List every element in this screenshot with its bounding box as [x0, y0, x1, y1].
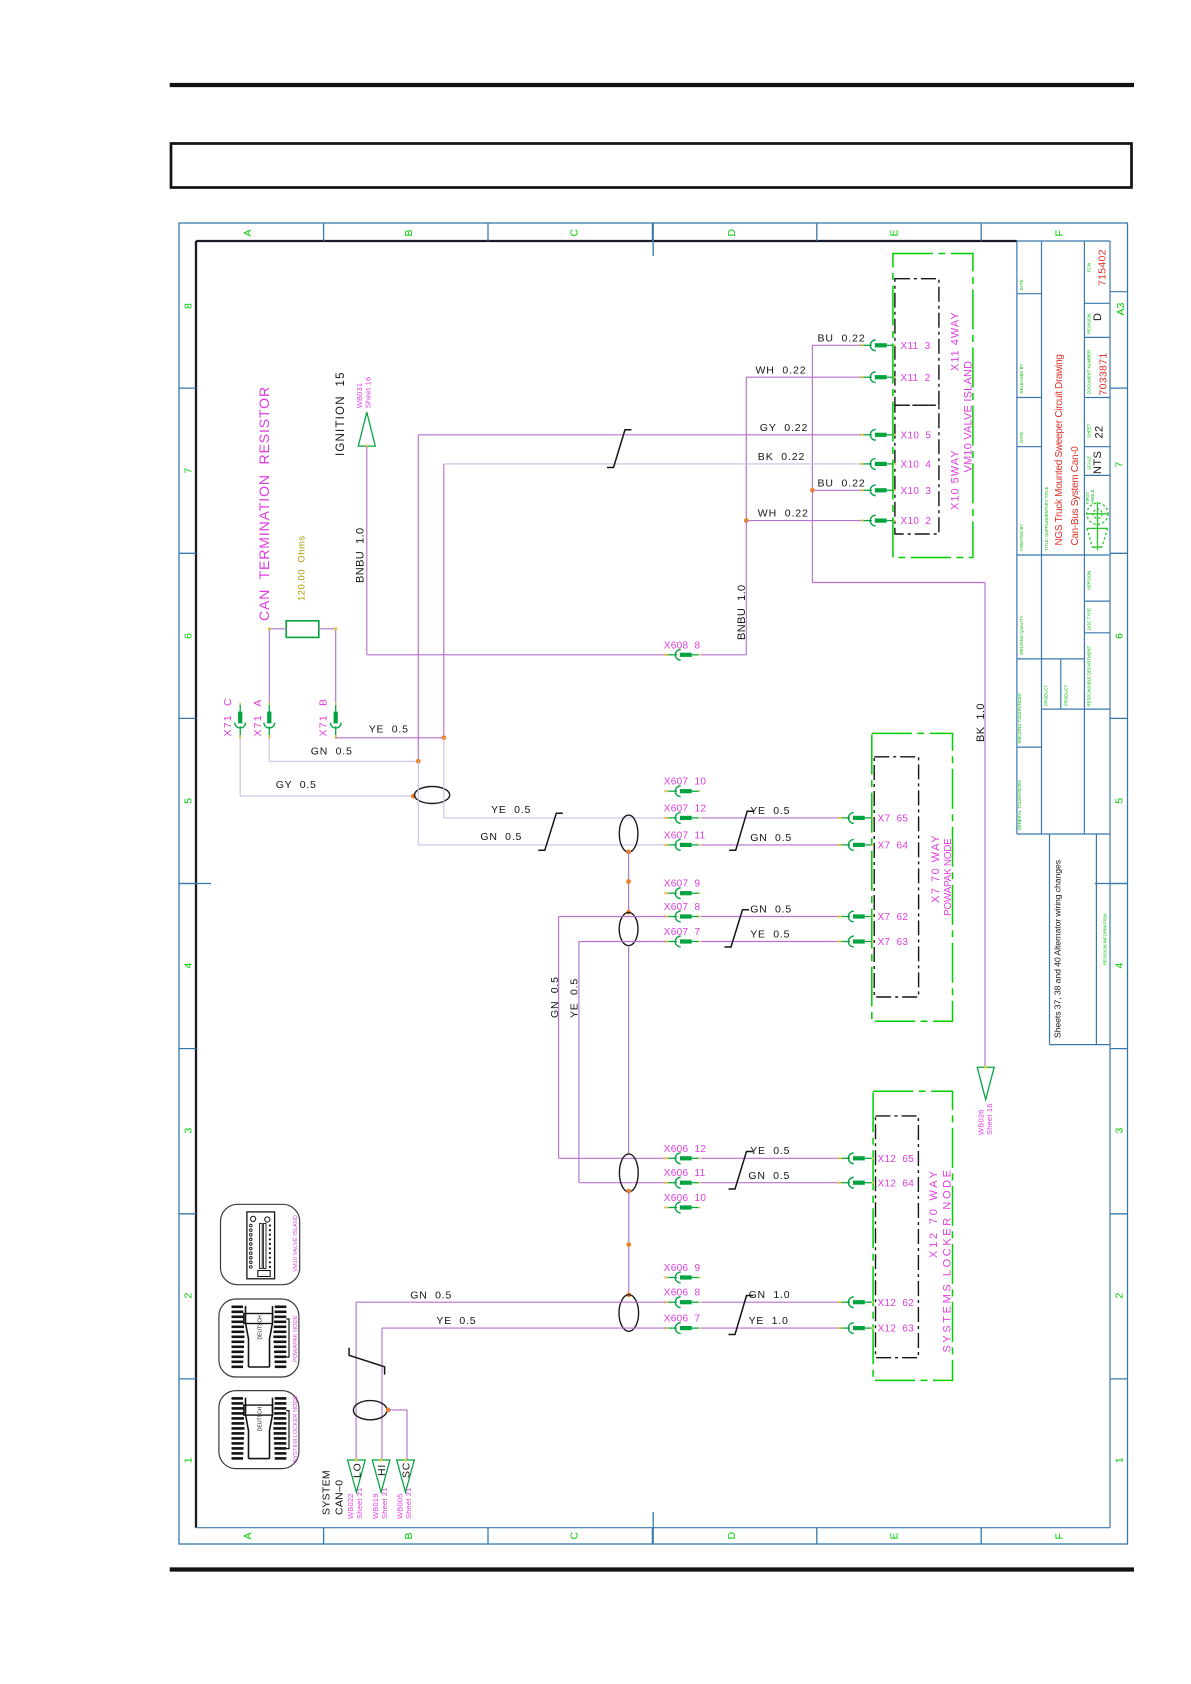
zone numbers right	[1114, 462, 1126, 1464]
svg-text:PRODUCT: PRODUCT	[1044, 684, 1049, 706]
svg-text:GN 0.5: GN 0.5	[311, 746, 353, 758]
cable slash X12 pair2	[729, 1296, 754, 1335]
pin X10 2	[859, 515, 895, 526]
paper size cell	[1110, 291, 1128, 293]
svg-text:X11 4WAY: X11 4WAY	[949, 311, 961, 371]
svg-text:2: 2	[183, 1293, 195, 1299]
svg-text:X12 62: X12 62	[878, 1298, 915, 1309]
svg-text:D: D	[726, 1532, 738, 1540]
splice X606 11	[664, 1177, 700, 1188]
svg-text:A: A	[242, 229, 254, 236]
svg-text:7: 7	[1114, 462, 1126, 468]
zone numbers left	[183, 303, 195, 1463]
svg-text:GN 0.5: GN 0.5	[750, 832, 792, 844]
svg-text:LO: LO	[351, 1462, 363, 1478]
wire GN 0.5 system	[356, 1302, 666, 1460]
svg-text:WH 0.22: WH 0.22	[756, 364, 807, 376]
wire WH 0.22 X11 2	[746, 377, 860, 520]
svg-text:A3: A3	[1115, 302, 1127, 315]
resistor R 120 ohm	[286, 621, 319, 638]
connector box X7 powapak node	[872, 733, 953, 1021]
zone ticks top	[324, 223, 982, 241]
cable slash GY/BK	[607, 430, 632, 468]
connector shell X11	[895, 279, 939, 406]
svg-text:X607 7: X607 7	[664, 927, 701, 938]
twisted pair ellipse E2	[619, 815, 638, 852]
pin X71 C	[235, 703, 246, 739]
pin X12 62	[837, 1297, 873, 1308]
sheet frame inner top	[196, 240, 1017, 242]
zone ticks bottom	[324, 1528, 982, 1544]
svg-text:SYSTEM: SYSTEM	[321, 1470, 333, 1515]
svg-text:X10 3: X10 3	[901, 486, 932, 497]
svg-text:X71 C: X71 C	[222, 697, 234, 736]
bottom rule	[170, 1567, 1134, 1571]
wire CAN drop GN	[417, 761, 419, 845]
junction E3 top	[626, 910, 631, 915]
junction GN	[416, 759, 421, 764]
svg-text:8: 8	[183, 303, 195, 309]
svg-text:WELDING QUALITY: WELDING QUALITY	[1019, 615, 1024, 655]
wire BK 0.22	[444, 464, 861, 737]
splice X606 9	[664, 1272, 700, 1283]
splice X606 12	[664, 1153, 700, 1164]
wire chain E2-E3	[628, 852, 630, 913]
svg-text:3: 3	[1114, 1128, 1126, 1134]
svg-text:GN 0.5: GN 0.5	[748, 1170, 790, 1182]
wire chain E3-E4	[628, 946, 630, 1155]
svg-text:X606 8: X606 8	[664, 1288, 701, 1299]
pin X7 63	[837, 936, 873, 947]
connector shell X10	[895, 405, 939, 534]
zone letters bottom	[242, 1532, 1066, 1540]
svg-text:D: D	[1092, 313, 1104, 321]
svg-text:YE 0.5: YE 0.5	[750, 1145, 790, 1157]
wire BU 0.22 X11 3	[812, 345, 860, 490]
splice X606 7	[664, 1323, 700, 1334]
off-sheet arrow WB031 ignition	[358, 412, 375, 448]
junction WH	[744, 518, 749, 523]
svg-text:X10 4: X10 4	[901, 460, 932, 471]
zone letters top	[242, 229, 1066, 237]
wire X606 7 to X12 63	[701, 1327, 839, 1329]
svg-text:1: 1	[183, 1457, 195, 1463]
svg-text:5: 5	[1114, 798, 1126, 804]
svg-text:YE 0.5: YE 0.5	[436, 1315, 476, 1327]
wire chain E4-E5	[628, 1191, 630, 1295]
svg-text:X71 B: X71 B	[318, 698, 330, 737]
svg-text:TITLE: SUPPLEMENTARY TITLE: TITLE: SUPPLEMENTARY TITLE	[1044, 486, 1049, 551]
cable slash X12 pair1	[729, 1152, 754, 1190]
pin X71 A	[264, 703, 275, 739]
zone ticks right	[1110, 388, 1128, 1379]
svg-text:X12 65: X12 65	[878, 1154, 915, 1165]
svg-text:WB019: WB019	[371, 1493, 380, 1519]
svg-text:POWAPAK NODE: POWAPAK NODE	[293, 1315, 299, 1362]
svg-text:Sheet 21: Sheet 21	[380, 1487, 389, 1519]
svg-text:X7 65: X7 65	[878, 814, 909, 825]
svg-text:WB005: WB005	[395, 1493, 404, 1519]
svg-text:GY 0.5: GY 0.5	[276, 779, 317, 791]
cable slash X7 pair2	[725, 910, 750, 947]
pictogram VM10 valve island	[221, 1204, 300, 1284]
svg-text:CAN TERMINATION RESISTOR: CAN TERMINATION RESISTOR	[256, 386, 272, 621]
wire X607 7 to X7 63	[701, 941, 839, 943]
svg-text:DATE: DATE	[1019, 432, 1024, 443]
label WB005 Sheet 21	[395, 1487, 413, 1519]
wire YE 0.5 X71B	[336, 737, 444, 739]
svg-text:C: C	[568, 1532, 580, 1540]
pin X11 3	[859, 340, 895, 351]
zone ticks left	[179, 388, 196, 1379]
svg-text:120.00 Ohms: 120.00 Ohms	[297, 535, 308, 601]
svg-text:E: E	[888, 229, 900, 236]
pin X12 63	[837, 1323, 873, 1334]
label WB022 Sheet 21	[346, 1487, 364, 1519]
wire YE 0.5 to X607 12	[444, 817, 666, 819]
sheet frame inner left	[195, 241, 197, 1528]
svg-text:X7 64: X7 64	[878, 841, 909, 852]
junction E6 right	[386, 1408, 391, 1413]
svg-text:BNBU 1.0: BNBU 1.0	[736, 584, 748, 640]
splice X608 8	[664, 649, 700, 660]
svg-text:22: 22	[1094, 425, 1106, 438]
svg-text:GN 0.5: GN 0.5	[480, 831, 522, 843]
title block values	[1052, 249, 1127, 1038]
header box (empty)	[171, 144, 1132, 188]
off-sheet arrow SC	[397, 1459, 415, 1493]
svg-text:X12 70 WAY: X12 70 WAY	[928, 1168, 940, 1258]
off-sheet arrow WB026	[977, 1066, 994, 1100]
svg-text:SHEET: SHEET	[1087, 423, 1092, 438]
svg-text:YE 0.5: YE 0.5	[750, 805, 790, 817]
svg-text:BNBU 1.0: BNBU 1.0	[354, 527, 366, 583]
svg-text:X606 10: X606 10	[664, 1193, 707, 1204]
svg-text:X12 64: X12 64	[878, 1178, 915, 1189]
svg-text:X7 70 WAY: X7 70 WAY	[930, 834, 942, 903]
pin X11 2	[859, 372, 895, 383]
cable slash YE/GN	[538, 813, 563, 850]
pin X12 64	[837, 1177, 873, 1188]
connector box X12 systems locker node	[873, 1091, 952, 1380]
svg-text:YE 1.0: YE 1.0	[749, 1315, 789, 1327]
svg-text:GN 0.5: GN 0.5	[410, 1290, 452, 1302]
svg-text:X607 8: X607 8	[664, 902, 701, 913]
svg-text:GN 1.0: GN 1.0	[749, 1289, 791, 1301]
pin X71 B	[330, 703, 341, 739]
svg-text:X606 12: X606 12	[664, 1144, 707, 1155]
svg-text:VM10 VALVE ISLAND: VM10 VALVE ISLAND	[962, 361, 974, 473]
junction E2 bottom	[626, 850, 631, 855]
svg-text:715402: 715402	[1096, 249, 1108, 286]
pin X7 65	[837, 813, 873, 824]
label WB019 Sheet 21	[371, 1487, 389, 1519]
wire X606 8 to X12 62	[701, 1301, 839, 1303]
cable slash X7 pair1	[729, 811, 754, 850]
wire SC drop	[388, 1410, 407, 1460]
svg-text:X10 5WAY: X10 5WAY	[949, 449, 961, 510]
splice X606 8	[664, 1297, 700, 1308]
svg-text:1: 1	[1114, 1457, 1126, 1463]
splice X606 10	[664, 1202, 700, 1213]
wire X606 11 to X12 64	[701, 1182, 839, 1184]
svg-text:BK 0.22: BK 0.22	[758, 451, 805, 463]
svg-text:BU 0.22: BU 0.22	[818, 333, 866, 345]
twisted pair ellipse E1	[415, 787, 450, 804]
connector shell X7	[874, 757, 918, 997]
svg-text:D: D	[726, 229, 738, 237]
svg-text:NTS: NTS	[1092, 451, 1104, 474]
sheet frame inner right	[1109, 241, 1111, 1528]
svg-text:X606 7: X606 7	[664, 1314, 701, 1325]
wire BU 0.22 X10 3	[812, 489, 860, 491]
title block micro labels	[1017, 263, 1107, 965]
wire BNBU 1.0 left	[367, 446, 666, 655]
svg-text:VERSION: VERSION	[1087, 571, 1092, 590]
svg-text:X607 12: X607 12	[664, 803, 707, 814]
resistor lead right	[319, 627, 337, 703]
svg-text:CREATED BY: CREATED BY	[1019, 524, 1024, 551]
svg-text:F: F	[1053, 230, 1065, 236]
svg-text:PRODUCT: PRODUCT	[1063, 684, 1068, 706]
label WB031 Sheet 16	[355, 377, 373, 409]
junction E4 bottom	[626, 1189, 631, 1194]
pictogram SYSTEM LOCKER NODE	[219, 1391, 299, 1469]
off-sheet arrow HI	[372, 1459, 390, 1493]
svg-text:X7 62: X7 62	[878, 912, 909, 923]
svg-text:REVISION: REVISION	[1087, 313, 1092, 334]
wire to X606 12	[559, 1157, 666, 1159]
splice X607 7	[664, 936, 700, 947]
svg-text:Sheets 37, 38 and 40 Alternato: Sheets 37, 38 and 40 Alternator wiring c…	[1052, 859, 1062, 1038]
svg-text:WELDING TOLERANCES: WELDING TOLERANCES	[1017, 693, 1022, 743]
svg-text:Sheet 21: Sheet 21	[404, 1487, 413, 1519]
svg-text:RESPONSIBLE DEPARTMENT: RESPONSIBLE DEPARTMENT	[1087, 645, 1092, 706]
svg-text:Can-Bus System Can-0: Can-Bus System Can-0	[1070, 446, 1081, 546]
svg-text:X11 3: X11 3	[901, 341, 931, 352]
top rule	[170, 83, 1134, 87]
svg-text:X11 2: X11 2	[901, 373, 931, 384]
svg-text:SC: SC	[401, 1462, 413, 1478]
pin X10 5	[859, 429, 895, 440]
svg-text:WB031: WB031	[355, 383, 364, 409]
svg-text:NGS Truck Mounted Sweeper Circ: NGS Truck Mounted Sweeper Circuit Drawin…	[1054, 354, 1065, 545]
svg-text:CAN–0: CAN–0	[334, 1480, 346, 1515]
pin X10 4	[859, 459, 895, 470]
svg-text:YE 0.5: YE 0.5	[750, 929, 790, 941]
first angle projection symbol	[1086, 502, 1109, 550]
wire GY 0.22	[418, 435, 860, 762]
twisted pair ellipse E4	[619, 1154, 638, 1192]
wire X607 11 to X7 64	[701, 844, 839, 846]
twisted pair ellipse E5	[619, 1295, 639, 1332]
svg-text:GENERAL TOLERANCES: GENERAL TOLERANCES	[1017, 780, 1022, 831]
svg-text:X606 11: X606 11	[664, 1168, 706, 1179]
svg-text:B: B	[403, 229, 415, 236]
title block grid	[1017, 241, 1110, 1045]
svg-text:RELEASED BY: RELEASED BY	[1019, 364, 1024, 394]
svg-text:6: 6	[183, 633, 195, 639]
svg-text:IGNITION 15: IGNITION 15	[335, 371, 347, 456]
svg-text:REVISION INFORMATION: REVISION INFORMATION	[1103, 914, 1108, 966]
svg-text:X12 63: X12 63	[878, 1324, 915, 1335]
svg-text:DOC TYPE: DOC TYPE	[1087, 608, 1092, 630]
svg-text:Sheet 21: Sheet 21	[355, 1487, 364, 1519]
svg-text:5: 5	[183, 798, 195, 804]
svg-text:DEUTSCH: DEUTSCH	[258, 1315, 264, 1340]
junction GY ellipse	[411, 794, 416, 799]
resistor lead left	[268, 627, 286, 703]
svg-text:GN 0.5: GN 0.5	[549, 976, 561, 1018]
svg-text:ANGLE: ANGLE	[1090, 489, 1095, 504]
junction chain mid b	[626, 1242, 631, 1247]
svg-text:F: F	[1053, 1533, 1065, 1539]
svg-text:Sheet 16: Sheet 16	[985, 1103, 994, 1135]
wire X607 12 to X7 65	[701, 817, 839, 819]
svg-text:VM10 VALVE ISLAND: VM10 VALVE ISLAND	[293, 1215, 299, 1272]
cable slash system	[349, 1348, 385, 1375]
svg-text:YE 0.5: YE 0.5	[568, 978, 580, 1018]
sheet frame inner bottom	[196, 1527, 1110, 1529]
wire GY 0.5 X71C	[240, 738, 414, 796]
svg-text:BK 1.0: BK 1.0	[975, 703, 987, 742]
splice X607 11	[664, 840, 700, 851]
svg-text:X606 9: X606 9	[664, 1263, 701, 1274]
svg-text:Sheet 16: Sheet 16	[364, 377, 373, 409]
wire to X606 11	[579, 1182, 666, 1184]
svg-text:B: B	[403, 1532, 415, 1539]
junction YE	[441, 735, 446, 740]
svg-text:4: 4	[183, 963, 195, 969]
wire WH 0.22 X10 2	[746, 520, 860, 522]
splice X607 8	[664, 911, 700, 922]
svg-text:X10 5: X10 5	[901, 430, 932, 441]
svg-text:YE 0.5: YE 0.5	[369, 724, 409, 736]
pictogram POWAPAK NODE	[219, 1299, 299, 1377]
sheet frame outer	[179, 223, 1128, 1544]
pin X12 65	[837, 1153, 873, 1164]
svg-text:WB022: WB022	[346, 1493, 355, 1519]
svg-text:ECN: ECN	[1087, 263, 1092, 272]
svg-text:7: 7	[183, 468, 195, 474]
wire CAN drop YE	[443, 738, 445, 818]
svg-text:X607 11: X607 11	[664, 830, 706, 841]
junction BU	[810, 488, 815, 493]
junction E5 top	[626, 1292, 631, 1297]
centering marks	[179, 223, 1128, 1544]
off-sheet arrow LO	[348, 1459, 366, 1493]
svg-text:SYSTEMS LOCKER NODE: SYSTEMS LOCKER NODE	[942, 1167, 954, 1352]
svg-text:X607 9: X607 9	[664, 879, 701, 890]
svg-text:DATE: DATE	[1019, 279, 1024, 290]
svg-text:BU 0.22: BU 0.22	[818, 477, 866, 489]
svg-text:WH 0.22: WH 0.22	[758, 508, 809, 520]
splice X607 9	[664, 888, 700, 899]
svg-text:POWAPAK NODE: POWAPAK NODE	[943, 838, 954, 916]
svg-text:HI: HI	[376, 1464, 388, 1476]
connector box VM10 valve island	[893, 254, 973, 558]
svg-text:GN 0.5: GN 0.5	[750, 904, 792, 916]
twisted pair ellipse E3	[619, 912, 638, 945]
svg-text:6: 6	[1114, 633, 1126, 639]
svg-text:YE 0.5: YE 0.5	[491, 804, 531, 816]
pin X10 3	[859, 485, 895, 496]
wire X607 7 stub left	[579, 942, 666, 1183]
pin X7 64	[837, 840, 873, 851]
svg-text:X71 A: X71 A	[252, 698, 264, 736]
svg-text:DOCUMENT NUMBER: DOCUMENT NUMBER	[1087, 350, 1092, 395]
wire YE 0.5 system	[382, 1328, 666, 1460]
twisted pair ellipse E6	[353, 1401, 387, 1420]
svg-text:C: C	[568, 229, 580, 237]
splice X607 10	[664, 786, 700, 797]
connector shell X12	[876, 1116, 919, 1358]
wire X607 8 stub left	[559, 917, 666, 1159]
svg-text:X607 10: X607 10	[664, 777, 707, 788]
svg-text:3: 3	[183, 1128, 195, 1134]
wire BK 1.0	[812, 490, 985, 1067]
wire X607 8 to X7 62	[701, 916, 839, 918]
svg-text:SCALE: SCALE	[1087, 456, 1092, 470]
wire X606 12 to X12 65	[701, 1157, 839, 1159]
wire BNBU 1.0 right	[701, 521, 746, 655]
svg-text:DEUTSCH: DEUTSCH	[258, 1407, 264, 1432]
svg-text:4: 4	[1114, 963, 1126, 969]
svg-text:GY 0.22: GY 0.22	[760, 422, 808, 434]
svg-text:SYSTEM LOCKER NODE: SYSTEM LOCKER NODE	[293, 1395, 299, 1462]
svg-text:E: E	[888, 1532, 900, 1539]
wire GN 0.5 to X607 11	[418, 844, 665, 846]
svg-text:7033871: 7033871	[1098, 353, 1110, 396]
junction chain mid a	[626, 879, 631, 884]
label SYSTEM CAN-0	[321, 1470, 346, 1515]
pin X7 62	[837, 911, 873, 922]
svg-text:X10 2: X10 2	[901, 516, 932, 527]
label WB026 Sheet 16	[977, 1103, 995, 1135]
svg-text:2: 2	[1114, 1293, 1126, 1299]
splice X607 12	[664, 813, 700, 824]
svg-text:X7 63: X7 63	[878, 937, 909, 948]
wire GN 0.5 X71A	[269, 738, 418, 762]
svg-text:A: A	[242, 1532, 254, 1539]
svg-text:X608 8: X608 8	[664, 640, 701, 651]
